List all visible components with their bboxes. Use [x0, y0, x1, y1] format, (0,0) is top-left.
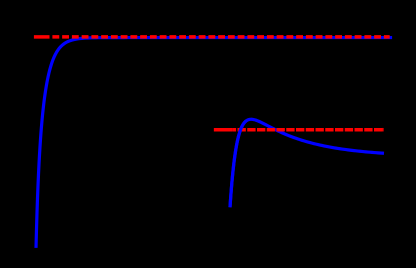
inset red dashed threshold: last dash completion: [382, 128, 383, 132]
inset blue rising limb redrawn over red: [230, 121, 247, 208]
main blue curve (rising saturation curve): [36, 38, 392, 248]
main red dashed asymptote: long solid start (legend sample): [34, 35, 50, 39]
main red dashed asymptote: dashed remainder: [50, 35, 390, 39]
inset red dashed threshold: long solid start: [214, 128, 233, 132]
inset blue curve (rise and decay, under red line): [230, 119, 384, 207]
inset red dashed threshold: dashed remainder: [233, 128, 384, 132]
